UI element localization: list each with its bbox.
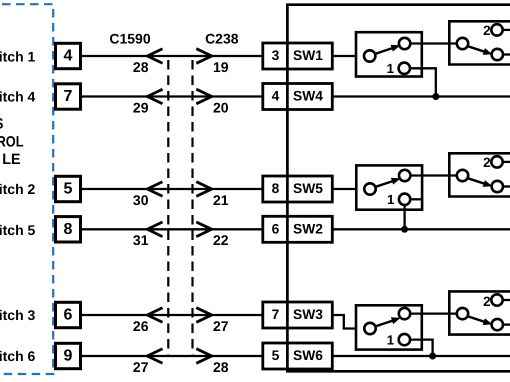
svg-text:SW2: SW2: [293, 221, 323, 236]
svg-text:Switch 4: Switch 4: [0, 89, 36, 105]
svg-text:4: 4: [272, 89, 280, 104]
svg-text:LE: LE: [2, 151, 20, 168]
svg-text:Switch 3: Switch 3: [0, 307, 36, 323]
svg-text:C238: C238: [205, 31, 239, 47]
svg-text:5: 5: [272, 348, 280, 363]
svg-text:SW3: SW3: [293, 307, 323, 322]
svg-text:27: 27: [213, 318, 229, 334]
svg-text:SW4: SW4: [293, 89, 323, 104]
svg-text:S: S: [0, 116, 3, 133]
svg-text:30: 30: [133, 192, 149, 208]
svg-text:1: 1: [387, 192, 394, 207]
svg-text:29: 29: [133, 99, 149, 115]
svg-text:28: 28: [213, 359, 229, 375]
svg-text:2: 2: [483, 23, 491, 38]
svg-text:8: 8: [64, 221, 73, 238]
svg-text:ROL: ROL: [0, 133, 24, 150]
svg-text:6: 6: [64, 307, 73, 324]
svg-text:5: 5: [64, 181, 73, 198]
svg-text:7: 7: [64, 88, 73, 105]
svg-text:27: 27: [133, 359, 149, 375]
svg-text:C1590: C1590: [109, 31, 150, 47]
svg-text:26: 26: [133, 318, 149, 334]
svg-text:19: 19: [213, 59, 229, 75]
svg-text:1: 1: [387, 332, 394, 347]
svg-text:31: 31: [133, 232, 149, 248]
svg-text:Switch 2: Switch 2: [0, 181, 36, 197]
svg-text:SW1: SW1: [293, 48, 323, 63]
svg-text:SW5: SW5: [293, 181, 323, 196]
svg-text:6: 6: [272, 221, 280, 236]
svg-text:SW6: SW6: [293, 348, 323, 363]
svg-text:4: 4: [64, 48, 73, 65]
svg-text:1: 1: [387, 61, 394, 76]
svg-text:Switch 6: Switch 6: [0, 348, 36, 364]
svg-text:20: 20: [213, 99, 229, 115]
svg-text:8: 8: [272, 181, 280, 196]
svg-text:21: 21: [213, 192, 229, 208]
svg-text:22: 22: [213, 232, 229, 248]
svg-text:2: 2: [483, 294, 491, 309]
svg-text:Switch 1: Switch 1: [0, 49, 36, 65]
svg-text:7: 7: [272, 307, 280, 322]
svg-text:Switch 5: Switch 5: [0, 222, 36, 238]
svg-text:9: 9: [64, 348, 73, 365]
svg-text:3: 3: [272, 48, 280, 63]
svg-text:28: 28: [133, 59, 149, 75]
svg-text:2: 2: [483, 155, 491, 170]
